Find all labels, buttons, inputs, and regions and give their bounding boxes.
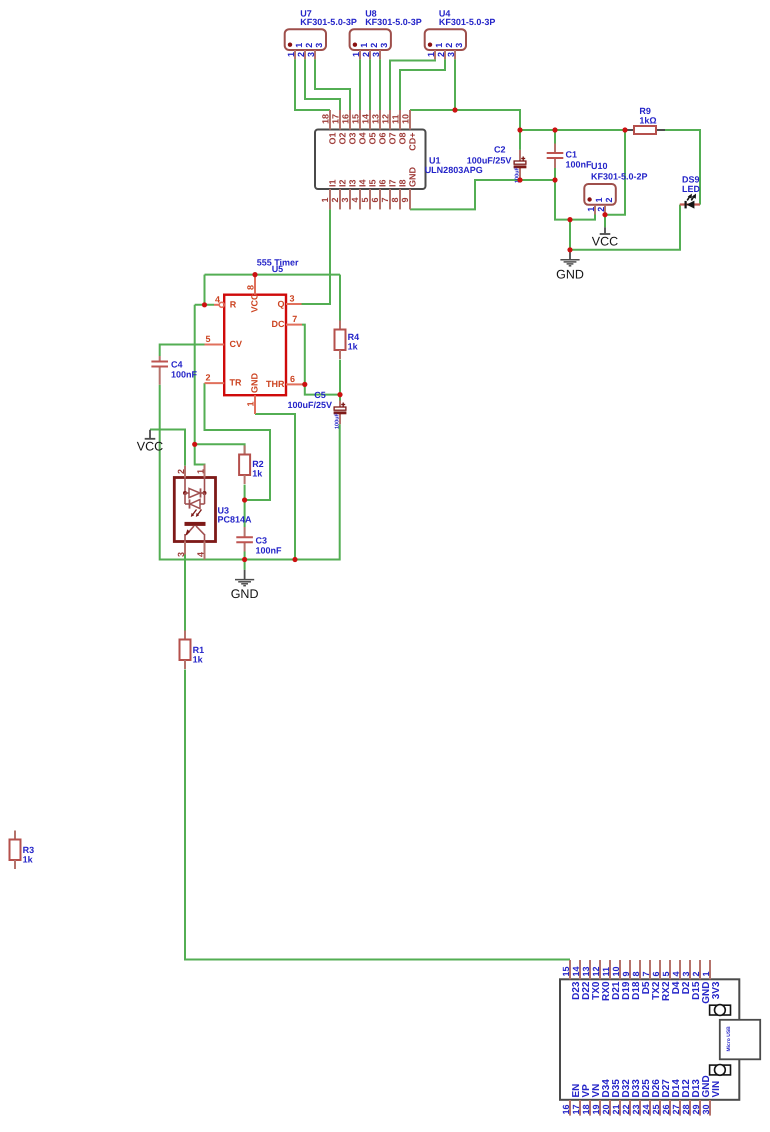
svg-text:28: 28 — [681, 1104, 691, 1114]
svg-text:I4: I4 — [358, 179, 368, 187]
svg-text:100uF/25V: 100uF/25V — [288, 400, 333, 410]
svg-text:8: 8 — [631, 971, 641, 976]
svg-text:6: 6 — [651, 971, 661, 976]
svg-text:18: 18 — [581, 1104, 591, 1114]
svg-text:C2: C2 — [494, 144, 506, 154]
svg-text:100nF: 100nF — [256, 546, 283, 556]
svg-text:20: 20 — [601, 1104, 611, 1114]
svg-text:7: 7 — [380, 197, 390, 202]
svg-text:2: 2 — [206, 373, 211, 383]
svg-text:KF301-5.0-3P: KF301-5.0-3P — [439, 17, 496, 27]
svg-text:VCC: VCC — [250, 293, 260, 313]
svg-text:19: 19 — [591, 1104, 601, 1114]
svg-text:2: 2 — [330, 197, 340, 202]
svg-text:1k: 1k — [348, 342, 359, 352]
svg-text:ULN2803APG: ULN2803APG — [425, 165, 483, 175]
svg-text:1k: 1k — [193, 655, 204, 665]
svg-text:O7: O7 — [388, 133, 398, 145]
svg-text:30: 30 — [701, 1104, 711, 1114]
svg-text:1kΩ: 1kΩ — [639, 116, 656, 126]
svg-text:16: 16 — [561, 1104, 571, 1114]
svg-text:GND: GND — [408, 167, 418, 188]
svg-text:10: 10 — [401, 114, 411, 124]
svg-text:5: 5 — [661, 971, 671, 976]
svg-text:O1: O1 — [328, 133, 338, 145]
svg-text:1: 1 — [246, 401, 256, 406]
svg-text:GND: GND — [250, 373, 260, 394]
svg-text:PC814A: PC814A — [218, 515, 253, 525]
svg-text:12: 12 — [591, 966, 601, 976]
svg-text:3: 3 — [454, 43, 464, 48]
svg-text:Q: Q — [277, 299, 284, 309]
svg-text:3: 3 — [176, 552, 186, 557]
svg-text:18: 18 — [321, 114, 331, 124]
svg-text:C5: C5 — [314, 390, 326, 400]
svg-text:1: 1 — [586, 207, 596, 212]
svg-text:13: 13 — [371, 114, 381, 124]
svg-text:5: 5 — [360, 197, 370, 202]
svg-text:1: 1 — [320, 197, 330, 202]
svg-text:4: 4 — [196, 552, 206, 557]
svg-text:23: 23 — [631, 1104, 641, 1114]
svg-text:14: 14 — [361, 114, 371, 124]
svg-text:KF301-5.0-3P: KF301-5.0-3P — [365, 17, 422, 27]
svg-text:C3: C3 — [256, 536, 268, 546]
svg-text:I5: I5 — [368, 179, 378, 187]
svg-text:1: 1 — [434, 43, 444, 48]
svg-text:O4: O4 — [358, 133, 368, 145]
svg-text:22: 22 — [621, 1104, 631, 1114]
svg-text:2: 2 — [444, 43, 454, 48]
svg-text:R: R — [230, 299, 237, 309]
svg-text:21: 21 — [611, 1104, 621, 1114]
svg-text:10: 10 — [611, 966, 621, 976]
svg-text:24: 24 — [641, 1104, 651, 1114]
svg-text:27: 27 — [671, 1104, 681, 1114]
svg-text:6: 6 — [290, 374, 295, 384]
svg-text:1: 1 — [701, 971, 711, 976]
svg-text:3: 3 — [306, 52, 316, 57]
svg-text:U5: U5 — [272, 264, 284, 274]
svg-text:4: 4 — [350, 197, 360, 202]
svg-text:1: 1 — [286, 52, 296, 57]
svg-text:C1: C1 — [566, 149, 578, 159]
svg-text:3: 3 — [340, 197, 350, 202]
svg-text:2: 2 — [176, 469, 186, 474]
svg-text:DC: DC — [272, 319, 285, 329]
svg-text:100uF/25V: 100uF/25V — [467, 155, 512, 165]
svg-text:KF301-5.0-3P: KF301-5.0-3P — [300, 17, 357, 27]
svg-text:TR: TR — [230, 377, 242, 387]
svg-text:1: 1 — [594, 197, 604, 202]
svg-text:LED: LED — [682, 184, 701, 194]
svg-text:I2: I2 — [338, 179, 348, 187]
svg-text:R9: R9 — [639, 106, 651, 116]
svg-text:3: 3 — [681, 971, 691, 976]
svg-text:GND: GND — [556, 267, 584, 281]
svg-text:17: 17 — [571, 1104, 581, 1114]
svg-text:11: 11 — [601, 967, 611, 977]
svg-text:DS9: DS9 — [682, 175, 700, 185]
svg-text:VCC: VCC — [137, 440, 163, 454]
svg-text:2: 2 — [604, 197, 614, 202]
svg-text:14: 14 — [571, 966, 581, 976]
svg-text:O2: O2 — [338, 133, 348, 145]
svg-text:2: 2 — [596, 207, 606, 212]
svg-text:I1: I1 — [328, 179, 338, 187]
svg-text:7: 7 — [641, 971, 651, 976]
svg-text:3: 3 — [371, 52, 381, 57]
svg-text:2: 2 — [304, 43, 314, 48]
svg-text:8: 8 — [246, 285, 256, 290]
svg-text:I3: I3 — [348, 179, 358, 187]
svg-text:O8: O8 — [398, 133, 408, 145]
svg-text:3V3: 3V3 — [711, 981, 722, 999]
svg-text:1: 1 — [294, 43, 304, 48]
svg-text:12: 12 — [381, 114, 391, 124]
svg-text:CV: CV — [230, 339, 243, 349]
svg-text:C4: C4 — [171, 360, 183, 370]
svg-text:2: 2 — [296, 52, 306, 57]
svg-text:2: 2 — [691, 971, 701, 976]
svg-text:R1: R1 — [193, 645, 205, 655]
svg-text:O3: O3 — [348, 133, 358, 145]
svg-text:26: 26 — [661, 1104, 671, 1114]
svg-text:15: 15 — [351, 114, 361, 124]
svg-text:Micro USB: Micro USB — [726, 1026, 732, 1052]
svg-text:9: 9 — [621, 971, 631, 976]
svg-text:15: 15 — [561, 966, 571, 976]
svg-text:VCC: VCC — [592, 234, 618, 248]
svg-text:KF301-5.0-2P: KF301-5.0-2P — [591, 172, 648, 182]
svg-text:THR: THR — [266, 379, 285, 389]
svg-text:100uF: 100uF — [334, 412, 340, 429]
svg-text:1: 1 — [426, 52, 436, 57]
svg-text:2: 2 — [369, 43, 379, 48]
svg-text:1k: 1k — [23, 855, 34, 865]
svg-text:I6: I6 — [378, 179, 388, 187]
svg-text:2: 2 — [436, 52, 446, 57]
svg-text:1: 1 — [196, 469, 206, 474]
svg-text:O6: O6 — [378, 133, 388, 145]
svg-text:3: 3 — [290, 294, 295, 304]
svg-text:2: 2 — [361, 52, 371, 57]
svg-text:16: 16 — [341, 114, 351, 124]
svg-text:29: 29 — [691, 1104, 701, 1114]
svg-text:17: 17 — [331, 114, 341, 124]
svg-text:9: 9 — [400, 197, 410, 202]
svg-text:8: 8 — [390, 197, 400, 202]
svg-text:1: 1 — [359, 43, 369, 48]
svg-text:4: 4 — [671, 971, 681, 976]
svg-text:O5: O5 — [368, 133, 378, 145]
svg-text:CD+: CD+ — [408, 133, 418, 151]
svg-text:3: 3 — [446, 52, 456, 57]
svg-text:R2: R2 — [252, 459, 264, 469]
svg-text:6: 6 — [370, 197, 380, 202]
svg-text:1k: 1k — [252, 469, 263, 479]
svg-text:3: 3 — [314, 43, 324, 48]
svg-text:7: 7 — [292, 314, 297, 324]
svg-text:GND: GND — [231, 587, 259, 601]
svg-text:R4: R4 — [348, 332, 360, 342]
svg-text:25: 25 — [651, 1104, 661, 1114]
svg-text:U10: U10 — [591, 161, 608, 171]
svg-text:I7: I7 — [388, 179, 398, 187]
svg-text:I8: I8 — [398, 179, 408, 187]
svg-text:5: 5 — [206, 334, 211, 344]
svg-text:13: 13 — [581, 966, 591, 976]
svg-text:R3: R3 — [23, 845, 35, 855]
svg-text:VIN: VIN — [711, 1081, 722, 1098]
svg-text:100nF: 100nF — [566, 159, 593, 169]
svg-text:100nF: 100nF — [171, 370, 198, 380]
svg-text:3: 3 — [379, 43, 389, 48]
svg-text:U1: U1 — [429, 156, 441, 166]
svg-text:4: 4 — [215, 294, 220, 304]
svg-text:1: 1 — [351, 52, 361, 57]
svg-text:11: 11 — [391, 114, 401, 124]
